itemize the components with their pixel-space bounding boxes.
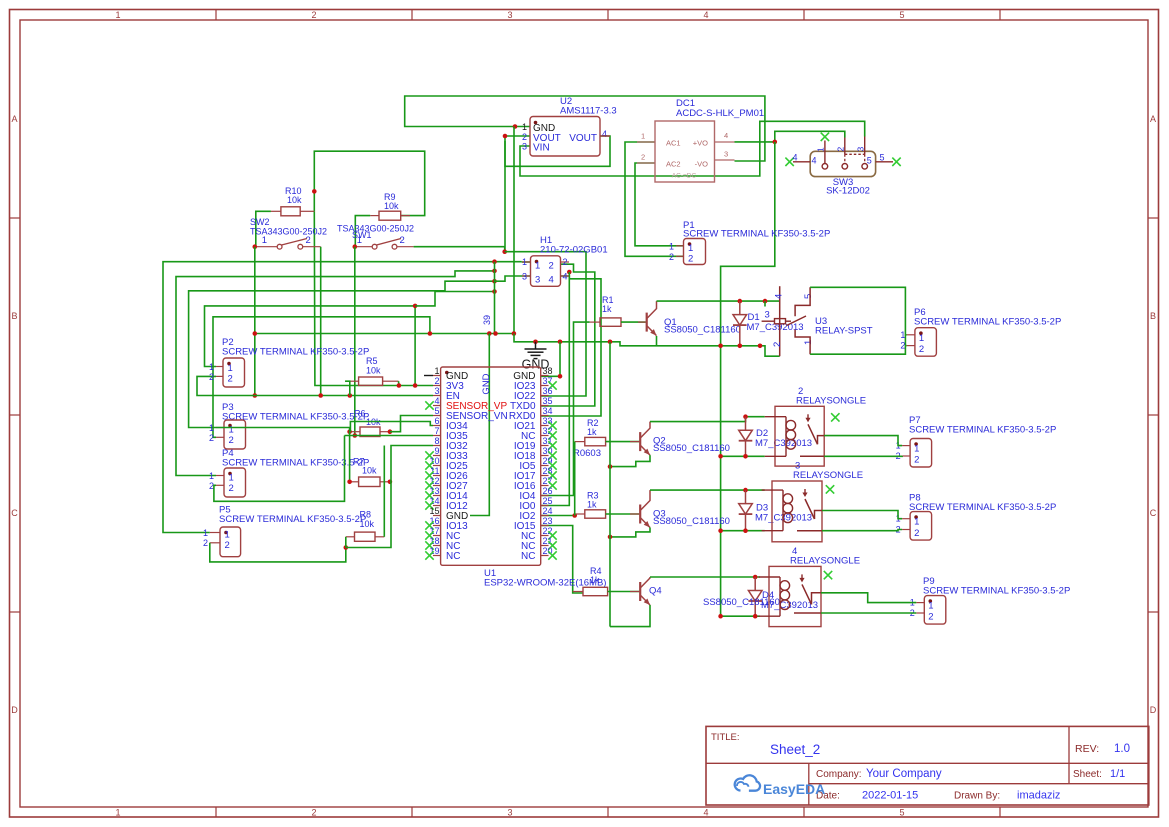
wire Q2 emitter jog to bus (610, 455, 650, 467)
wire GND bus vertical (494, 262, 496, 334)
svg-text:R6: R6 (354, 409, 366, 419)
svg-text:C: C (11, 508, 18, 518)
svg-text:GND: GND (481, 373, 492, 394)
junction rail stub (763, 299, 768, 304)
wire U3 contact loop to P6 (810, 287, 905, 354)
svg-text:SCREW TERMINAL KF350-3.5-2P: SCREW TERMINAL KF350-3.5-2P (923, 586, 1070, 597)
wire R9 right to top loop (314, 151, 424, 215)
junction rail2 long vertical (718, 454, 723, 459)
svg-text:26: 26 (543, 486, 553, 496)
wire R7 right up to IO32 pin8 (390, 446, 433, 482)
svg-text:35: 35 (543, 396, 553, 406)
svg-text:2: 2 (229, 435, 234, 446)
svg-text:8: 8 (434, 436, 439, 446)
svg-text:9: 9 (434, 446, 439, 456)
svg-text:2: 2 (641, 153, 645, 162)
relay U3 coil (779, 286, 781, 356)
svg-text:1: 1 (641, 132, 645, 141)
svg-text:2: 2 (549, 261, 554, 272)
svg-text:2: 2 (203, 538, 208, 548)
wire Q4 collector to relay4 (650, 576, 760, 578)
SW3 pin3 stub (864, 137, 866, 155)
junction R5-3V3 (397, 383, 402, 388)
junction rail4 long vertical (718, 614, 723, 619)
junction D2 top (743, 414, 748, 419)
wire D4 bottom rail (721, 615, 760, 617)
wire Q3 emitter jog to bus (610, 528, 650, 537)
wire H1 pin4 to RXD0 riser (541, 276, 601, 416)
junction rail pin38 drop (558, 340, 563, 345)
wire P6 pin1 stub (905, 334, 906, 336)
wire R5 right down to 3V3 row (398, 381, 400, 385)
wire R8 left down to junction (345, 537, 347, 548)
svg-text:4: 4 (602, 129, 607, 139)
junction rail GND bus (493, 331, 498, 336)
svg-text:C: C (1150, 508, 1157, 518)
wire H1 pin1 stub to row A (522, 261, 530, 263)
junction Q2 emitter (608, 464, 613, 469)
svg-text:2022-01-15: 2022-01-15 (862, 790, 918, 802)
svg-text:Company:: Company: (816, 769, 862, 780)
wire SW1 pin2 to U2 net (414, 247, 505, 252)
wire Q4 emitter loop to bus (610, 605, 650, 627)
svg-text:1k: 1k (602, 304, 612, 314)
svg-text:1: 1 (228, 363, 233, 374)
wire SW2 pin2 down to EN row (320, 247, 322, 396)
wire R5 left down to EN row (345, 381, 350, 395)
wire relay4 to P9 pin1 (821, 593, 916, 603)
svg-text:3: 3 (724, 150, 728, 159)
svg-text:1/1: 1/1 (1110, 768, 1125, 780)
voltage regulator U2 (530, 117, 600, 157)
svg-text:1: 1 (209, 471, 214, 481)
svg-text:2: 2 (669, 252, 674, 262)
svg-text:AC1: AC1 (666, 139, 681, 148)
junction row B (492, 269, 497, 274)
U1 pin1 black stub (424, 375, 433, 377)
svg-text:-VO: -VO (695, 160, 709, 169)
switch SW3 SK-12D02 (810, 151, 875, 176)
wire IO2 pin24 to R2 net (541, 515, 575, 517)
svg-text:4: 4 (563, 272, 568, 282)
wire Q2 collector to relay2 (650, 417, 765, 422)
svg-text:3: 3 (434, 386, 439, 396)
svg-text:10k: 10k (362, 466, 377, 476)
svg-text:SS8050_C181160: SS8050_C181160 (653, 443, 730, 454)
svg-text:2: 2 (836, 147, 846, 152)
junction SW2-EN (253, 393, 258, 398)
svg-text:1: 1 (229, 473, 234, 484)
svg-text:SCREW TERMINAL KF350-3.5-2P: SCREW TERMINAL KF350-3.5-2P (909, 425, 1056, 436)
relay U3 contact pin5 (795, 287, 810, 316)
svg-text:1: 1 (522, 122, 527, 132)
junction SW1 pin2 net (502, 249, 507, 254)
svg-text:1: 1 (914, 517, 919, 528)
wire D2 bottom rail (721, 455, 765, 457)
svg-text:2: 2 (306, 235, 311, 246)
svg-text:SS8050_C181160: SS8050_C181160 (664, 325, 741, 336)
wire P6 pin2 stub (905, 345, 906, 347)
svg-text:AC-=DC: AC-=DC (672, 173, 697, 180)
emitter bus vertical (609, 342, 611, 627)
svg-text:2: 2 (311, 808, 316, 818)
svg-text:RELAYSONGLE: RELAYSONGLE (796, 395, 866, 406)
svg-text:5: 5 (899, 10, 904, 20)
SW3 pin1 stub (824, 141, 826, 164)
svg-text:38: 38 (543, 366, 553, 376)
wire R10 left wrap to SW2 pin1 (256, 211, 271, 246)
svg-text:2: 2 (914, 528, 919, 539)
SW3 pin4 stub (793, 161, 810, 163)
wire R8 right up to IO32 row (383, 446, 385, 537)
junction row C (492, 279, 497, 284)
svg-text:5: 5 (899, 808, 904, 818)
svg-text:10k: 10k (360, 519, 375, 529)
wire relay3 to P8 pin2 (822, 530, 902, 531)
diode D2 (745, 417, 747, 431)
svg-text:Drawn By:: Drawn By: (954, 791, 1000, 802)
no-connect X relay 4 (824, 571, 832, 579)
wire U2 VIN to SW3 pin3 (520, 121, 865, 176)
svg-text:1: 1 (919, 333, 924, 344)
wire Q1 emitter to GND rail (656, 336, 658, 346)
wire P2 pin1 net row D to 3V3 (205, 306, 416, 367)
svg-text:1k: 1k (590, 575, 600, 585)
wire DC1 pin1 to P1 pin2 (625, 142, 684, 256)
svg-text:1k: 1k (587, 427, 597, 437)
svg-text:SCREW TERMINAL KF350-3.5-2P: SCREW TERMINAL KF350-3.5-2P (222, 347, 369, 358)
wire R2 input vertical (574, 442, 576, 516)
svg-text:4: 4 (549, 275, 554, 286)
svg-text:1: 1 (115, 10, 120, 20)
junction P2 row riser (413, 304, 418, 309)
wire Q3 collector to relay3 (650, 489, 765, 491)
svg-text:Sheet:: Sheet: (1073, 769, 1102, 780)
wire R6 left to P3 pin1 row (216, 428, 350, 432)
wire IO22 riser to SW1 pin2 net (505, 252, 586, 396)
wire R6 right up to SENSOR_VN pin5 (390, 416, 433, 432)
svg-text:SCREW TERMINAL KF350-3.5-2P: SCREW TERMINAL KF350-3.5-2P (219, 514, 366, 525)
junction D3 top (743, 488, 748, 493)
svg-text:Your Company: Your Company (866, 768, 942, 780)
junction R7 right (388, 480, 393, 485)
junction EN-R5 (348, 393, 353, 398)
svg-text:1: 1 (522, 257, 527, 267)
svg-text:1: 1 (262, 235, 267, 246)
svg-text:5: 5 (803, 294, 814, 299)
svg-text:NC: NC (446, 551, 460, 562)
wire R2 to Q2 base (606, 441, 640, 443)
wire pin38 GND drop (541, 342, 560, 377)
wire H1 pin3 to row C (495, 276, 531, 281)
wire relay4 to P9 pin2 (821, 612, 916, 614)
svg-text:24: 24 (543, 506, 553, 516)
junction rail P3pin2 (428, 331, 433, 336)
svg-text:TITLE:: TITLE: (711, 732, 740, 743)
svg-text:10k: 10k (384, 201, 399, 211)
svg-text:VIN: VIN (533, 143, 550, 154)
svg-text:EasyEDA: EasyEDA (763, 781, 825, 797)
junction EN-SW (318, 393, 323, 398)
junction U2 pin2 (503, 134, 508, 139)
svg-text:1: 1 (209, 423, 214, 433)
svg-text:1: 1 (816, 147, 826, 152)
svg-text:1: 1 (225, 530, 230, 541)
SW3 dashed link pins 2-3 (845, 153, 865, 155)
transistor Q4 (639, 582, 641, 601)
svg-text:M7_C392013: M7_C392013 (755, 438, 812, 449)
junction rail emitter bus (608, 340, 613, 345)
svg-text:SCREW TERMINAL KF350-3.5-2P: SCREW TERMINAL KF350-3.5-2P (914, 317, 1061, 328)
wire P4 pin1 net row B (176, 271, 495, 476)
transistor Q3 (639, 505, 641, 524)
wire riser to 3V3 row (414, 306, 416, 386)
svg-text:SK-12D02: SK-12D02 (826, 186, 870, 197)
svg-text:2: 2 (209, 433, 214, 443)
svg-text:Q4: Q4 (649, 586, 662, 597)
svg-text:1: 1 (803, 340, 814, 345)
svg-text:R5: R5 (366, 356, 378, 366)
wire R7 right down to R8 junction (346, 482, 391, 548)
junction rail-SW2net (253, 331, 258, 336)
svg-text:3: 3 (765, 310, 770, 321)
diode D3 (745, 490, 747, 504)
junction rail1 stub (758, 344, 763, 349)
svg-text:4: 4 (812, 156, 817, 166)
SW3 pin2 stub (844, 138, 846, 155)
svg-text:2: 2 (928, 612, 933, 623)
svg-text:25: 25 (543, 496, 553, 506)
wire R9 left wrap to SW1 pin1 (355, 216, 370, 247)
junction 3V3-row riser (413, 383, 418, 388)
SW3 pin5 stub (876, 161, 893, 163)
junction R7 left (347, 480, 352, 485)
junction R6 left (347, 429, 352, 434)
svg-text:AC2: AC2 (666, 160, 681, 169)
svg-text:34: 34 (543, 406, 553, 416)
junction D1 bottom (738, 344, 743, 349)
svg-text:2: 2 (311, 10, 316, 20)
junction U2 pin1 (513, 124, 518, 129)
svg-text:4: 4 (703, 808, 708, 818)
wire +VO down long vertical to relays (721, 142, 775, 616)
svg-text:4: 4 (724, 131, 728, 140)
junction row A (492, 259, 497, 264)
svg-text:SW2: SW2 (250, 217, 270, 227)
no-connect X SW3 pin1 (821, 133, 829, 141)
svg-text:36: 36 (543, 386, 553, 396)
wire P2 pin2 to EN row (197, 376, 433, 395)
EasyEDA logo (735, 775, 760, 790)
svg-text:39: 39 (482, 315, 492, 325)
svg-text:1: 1 (928, 601, 933, 612)
svg-text:2: 2 (228, 374, 233, 385)
title block (706, 726, 1149, 805)
junction D2 bottom (743, 454, 748, 459)
svg-text:3: 3 (535, 275, 540, 286)
svg-text:VOUT: VOUT (569, 133, 597, 144)
wire P5 pin1 net row A (163, 262, 522, 533)
svg-text:A: A (11, 114, 17, 124)
svg-text:3: 3 (856, 147, 866, 152)
svg-text:2: 2 (563, 257, 568, 267)
svg-text:5: 5 (867, 156, 872, 166)
junction +VO (773, 140, 778, 145)
wire IO34 pin6 from R6 area (350, 422, 433, 432)
wire vertical U2 pin1 net down (513, 127, 515, 334)
svg-text:5: 5 (434, 406, 439, 416)
wire relay2 to P7 pin1 (824, 436, 902, 446)
junction SW1-IO35 (353, 433, 358, 438)
wire Q1 collector rail to relay coil (657, 300, 780, 302)
svg-text:1: 1 (900, 330, 905, 340)
svg-text:D: D (11, 705, 18, 715)
svg-text:2: 2 (400, 235, 405, 246)
svg-text:23: 23 (543, 516, 553, 526)
svg-text:D: D (1150, 705, 1157, 715)
junction IO0 riser (567, 270, 572, 275)
svg-text:1.0: 1.0 (1114, 743, 1130, 755)
wire P4 pin2 loop to IO35 bus (214, 436, 345, 502)
svg-text:B: B (1150, 311, 1156, 321)
wire SW1 pin1 net vertical to IO35 row (354, 247, 356, 436)
wire U2 pin1 GND net top loop (405, 96, 765, 161)
svg-text:RELAYSONGLE: RELAYSONGLE (790, 555, 860, 566)
wire R10 right net down to 3V3 row (314, 211, 433, 385)
wire +VO up to SW3 pin2 (775, 131, 845, 142)
svg-text:2: 2 (900, 341, 905, 351)
svg-text:2: 2 (919, 344, 924, 355)
svg-text:B: B (11, 311, 17, 321)
svg-text:REV:: REV: (1075, 743, 1099, 755)
wire pin39 GND line through U1 to pin15 (470, 334, 489, 516)
svg-text:2: 2 (772, 342, 783, 347)
junction row F (492, 289, 497, 294)
wire vertical U2 pin2 net down (504, 141, 506, 252)
svg-text:5: 5 (880, 152, 885, 162)
transistor Q1 (646, 313, 648, 332)
svg-text:RELAYSONGLE: RELAYSONGLE (793, 470, 863, 481)
svg-text:1: 1 (669, 242, 674, 252)
svg-text:1: 1 (115, 808, 120, 818)
svg-text:210-72-02GB01: 210-72-02GB01 (540, 245, 608, 256)
svg-text:3: 3 (522, 272, 527, 282)
svg-text:2: 2 (209, 372, 214, 382)
svg-text:1: 1 (209, 362, 214, 372)
junction rail pin39 (487, 331, 492, 336)
relay U3 blade (787, 316, 807, 326)
svg-text:4: 4 (774, 294, 785, 299)
svg-text:SCREW TERMINAL KF350-3.5-2P: SCREW TERMINAL KF350-3.5-2P (222, 458, 369, 469)
svg-text:2: 2 (434, 376, 439, 386)
svg-text:3: 3 (522, 142, 527, 152)
svg-text:AMS1117-3.3: AMS1117-3.3 (560, 106, 617, 117)
no-connect X relay 2 (831, 413, 839, 421)
svg-text:2: 2 (229, 483, 234, 494)
GND rail upper (255, 333, 514, 335)
wire IO35 pin7 row (345, 435, 434, 437)
U1 left pins (433, 375, 441, 377)
junction SW1 pin1 (353, 244, 358, 249)
svg-text:2: 2 (914, 455, 919, 466)
wire relay2 to P7 pin2 (824, 455, 902, 457)
svg-text:6: 6 (434, 416, 439, 426)
svg-text:1: 1 (203, 528, 208, 538)
svg-text:2: 2 (522, 132, 527, 142)
svg-text:10k: 10k (366, 366, 381, 376)
svg-text:SCREW TERMINAL KF350-3.5-2P: SCREW TERMINAL KF350-3.5-2P (909, 502, 1056, 513)
ESP32 module U1 (441, 367, 541, 565)
svg-text:R8: R8 (360, 510, 372, 520)
transistor Q2 (639, 432, 641, 451)
junction Q3 emitter (608, 535, 613, 540)
junction R6 right (388, 429, 393, 434)
svg-text:SS8050_C181160: SS8050_C181160 (653, 516, 730, 527)
svg-text:RELAY-SPST: RELAY-SPST (815, 326, 873, 337)
svg-text:NC: NC (521, 551, 535, 562)
junction on R10 right net (312, 189, 317, 194)
svg-text:4: 4 (434, 396, 439, 406)
diode D4 (754, 577, 756, 591)
junction rail ground symbol (533, 340, 538, 345)
svg-text:10k: 10k (287, 195, 302, 205)
wire R1 to Q1 base (621, 321, 646, 323)
svg-text:1: 1 (688, 243, 693, 254)
wire U2 pin2 VOUT to pin4 loop (505, 136, 610, 166)
wire IO15 pin23 to R4 (541, 526, 583, 594)
junction R8 left (344, 545, 349, 550)
ACDC converter DC1 (655, 121, 715, 182)
wire R6-R7 vertical (349, 432, 351, 482)
U1 right pins (541, 375, 549, 377)
no-connect X SW3 pin4 (785, 158, 793, 166)
wire R4 to Q4 base (608, 591, 640, 593)
junction rail3 long vertical (718, 528, 723, 533)
wire R3 to Q3 base (606, 513, 640, 515)
svg-text:1: 1 (535, 261, 540, 272)
no-connect X SW3 pin5 (892, 158, 900, 166)
svg-text:3: 3 (507, 10, 512, 20)
wire row E P3 pin2 to GND rail (213, 317, 430, 438)
wire IO4 pin26 to R1 (541, 322, 590, 495)
svg-text:TSA343G00-250J2: TSA343G00-250J2 (337, 224, 414, 234)
svg-text:Sheet_2: Sheet_2 (770, 742, 820, 757)
diode D1 (739, 301, 741, 315)
svg-text:+VO: +VO (693, 139, 708, 148)
ground symbol (535, 342, 537, 349)
wire DC1 +VO to junction (735, 141, 775, 143)
svg-text:4: 4 (792, 152, 797, 162)
junction D4 bottom (753, 614, 758, 619)
svg-text:1: 1 (229, 425, 234, 436)
svg-text:R0603: R0603 (573, 448, 601, 459)
wire P3 pin1 net row C to R6 (189, 281, 495, 427)
svg-text:2: 2 (688, 254, 693, 265)
GND rail step (514, 334, 780, 357)
svg-text:2: 2 (225, 540, 230, 551)
border ruler ticks (215, 10, 217, 21)
wire D3 bottom rail (721, 530, 765, 532)
svg-text:A: A (1150, 114, 1156, 124)
junction GND rail long vertical (718, 344, 723, 349)
wire DC1 pin2 to P1 pin1 (635, 163, 684, 246)
svg-text:15: 15 (429, 506, 439, 516)
svg-text:SCREW TERMINAL KF350-3.5-2P: SCREW TERMINAL KF350-3.5-2P (683, 229, 830, 240)
wire SW2 pin1 net vertical to EN row (254, 247, 256, 396)
wire IO0 riser (541, 272, 569, 506)
svg-text:4: 4 (703, 10, 708, 20)
svg-text:3: 3 (507, 808, 512, 818)
